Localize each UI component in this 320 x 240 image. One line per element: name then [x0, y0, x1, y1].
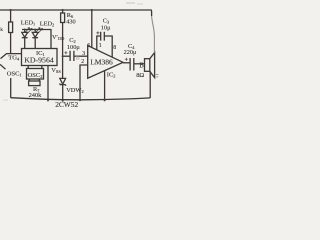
svg-text:C2: C2: [69, 37, 75, 44]
svg-text:240k: 240k: [29, 92, 43, 99]
svg-text:LM386: LM386: [90, 57, 113, 66]
svg-text:LED1: LED1: [21, 20, 35, 27]
svg-text:2CW52: 2CW52: [55, 100, 78, 109]
svg-text:LED2: LED2: [40, 21, 54, 28]
svg-text:8: 8: [113, 45, 116, 51]
svg-text:TG4: TG4: [8, 55, 20, 62]
svg-text:OSC1: OSC1: [7, 71, 22, 78]
svg-text:100μ: 100μ: [67, 44, 80, 51]
svg-text:C3: C3: [103, 17, 110, 24]
svg-text:KD-9564: KD-9564: [24, 56, 54, 65]
svg-text:IC2: IC2: [107, 72, 116, 79]
svg-text:k: k: [0, 27, 3, 33]
svg-text:OSC2: OSC2: [28, 72, 43, 79]
svg-text:10μ: 10μ: [101, 24, 111, 31]
svg-text:430: 430: [66, 19, 75, 26]
svg-text:B: B: [139, 63, 144, 70]
svg-text:2: 2: [81, 59, 84, 65]
svg-text:V′DD: V′DD: [52, 34, 64, 41]
svg-text:1: 1: [99, 43, 102, 49]
svg-text:6: 6: [87, 43, 90, 49]
svg-text:220μ: 220μ: [124, 49, 137, 56]
svg-text:VSS: VSS: [51, 67, 61, 74]
svg-text:8Ω: 8Ω: [136, 72, 144, 79]
svg-text:3: 3: [82, 51, 85, 57]
svg-text:VDW2: VDW2: [66, 87, 83, 94]
